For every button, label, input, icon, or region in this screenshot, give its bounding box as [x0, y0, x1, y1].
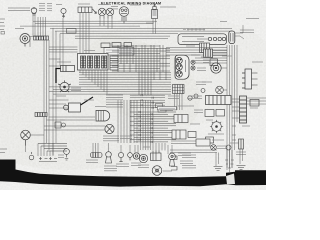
gauge: ammeter	[119, 7, 129, 24]
wire	[181, 94, 183, 111]
wire	[108, 143, 110, 152]
wire	[48, 40, 50, 150]
wire x63	[62, 18, 64, 66]
label front turn signal and parking light	[8, 8, 30, 10]
stop light switch	[55, 122, 66, 128]
label strip box mid	[157, 107, 176, 110]
terminal marks left edge	[0, 19, 5, 34]
wire	[100, 70, 102, 89]
label wire codes	[47, 4, 52, 11]
connector stub left of key	[171, 156, 177, 170]
terminal marks bottom right	[225, 160, 234, 168]
label wiper motor	[95, 106, 106, 108]
wire	[213, 55, 227, 57]
label horn	[15, 28, 24, 30]
wire	[120, 145, 122, 152]
wire distributor leads	[235, 25, 244, 39]
wire	[107, 19, 109, 29]
wire	[55, 30, 232, 32]
starter motor	[152, 166, 162, 176]
wire	[29, 37, 31, 48]
wire bundle to battery	[38, 144, 67, 152]
wire	[20, 25, 140, 27]
label	[191, 54, 200, 56]
label	[138, 165, 149, 167]
wire bus	[79, 79, 171, 81]
wire	[232, 110, 240, 112]
wire	[147, 100, 149, 150]
wire	[170, 149, 217, 151]
wire	[49, 51, 78, 53]
wire	[33, 20, 157, 22]
connector: bulkhead terminal strip	[34, 36, 49, 40]
label	[222, 55, 232, 57]
marks left edge low	[0, 149, 7, 153]
connector E-shape	[242, 69, 258, 89]
wire	[229, 150, 231, 168]
lamp small left-bottom	[64, 149, 70, 160]
wire	[171, 143, 196, 145]
wire	[247, 103, 267, 105]
small boxes mid	[156, 104, 167, 113]
label	[206, 119, 213, 121]
label	[168, 96, 179, 98]
label	[160, 110, 173, 112]
wire	[49, 49, 78, 51]
label	[196, 82, 206, 84]
wire drops center-left	[118, 100, 130, 143]
lamp: spoked instrument light	[210, 120, 223, 133]
wire	[75, 35, 170, 37]
wire bus	[79, 74, 171, 76]
wire	[166, 52, 227, 54]
ignition switch (key)	[169, 153, 176, 166]
wire	[79, 70, 81, 73]
wire	[218, 153, 220, 165]
indicator lamp	[194, 94, 198, 98]
connector pair right	[239, 139, 244, 149]
junction block (right top)	[204, 49, 213, 58]
label	[197, 38, 209, 40]
wire	[111, 19, 113, 29]
wire	[82, 70, 84, 75]
generator	[133, 153, 139, 159]
label	[120, 136, 132, 138]
wire	[232, 125, 236, 127]
label	[194, 110, 203, 112]
label	[131, 163, 141, 165]
wire	[46, 151, 48, 156]
label ignition distributor	[240, 30, 254, 32]
wire	[75, 38, 168, 40]
wire	[226, 45, 228, 170]
wire lamp ground	[25, 146, 27, 152]
lamp bottom right	[226, 145, 231, 150]
wire bus	[53, 93, 171, 95]
wire	[50, 28, 232, 30]
wire	[40, 146, 42, 156]
wire	[103, 70, 105, 92]
wire	[49, 46, 78, 48]
label	[220, 21, 227, 23]
horn RH	[211, 63, 221, 73]
wire	[176, 94, 178, 111]
wire	[215, 153, 217, 167]
wire	[92, 143, 94, 153]
ignition coil (dash)	[61, 66, 75, 72]
wire	[129, 145, 131, 153]
wire	[49, 65, 61, 67]
lamp small	[201, 89, 205, 93]
lamp: tail light LH	[21, 130, 31, 146]
ground symbol A	[214, 167, 223, 171]
wire	[43, 143, 45, 156]
wire	[82, 13, 84, 54]
wire	[231, 45, 233, 168]
label	[252, 61, 263, 63]
sender: oil pressure	[118, 152, 123, 161]
scan artifact: black band	[0, 160, 266, 187]
pilot lamp pair	[191, 60, 195, 70]
wire	[234, 45, 236, 150]
wire	[106, 70, 108, 94]
label	[242, 125, 250, 127]
wire	[40, 17, 42, 36]
switch box A	[101, 43, 110, 48]
wire	[164, 143, 166, 151]
wire	[60, 33, 178, 35]
wire	[213, 52, 227, 54]
wire	[136, 100, 138, 143]
wire	[94, 70, 96, 85]
head lamp left	[98, 8, 106, 19]
wire	[195, 60, 227, 62]
label	[116, 164, 129, 166]
small box lower right col	[206, 137, 214, 143]
label	[217, 146, 226, 148]
lamp: back-up light	[211, 145, 217, 151]
wire flasher feed (thick)	[81, 97, 94, 105]
label	[246, 18, 259, 20]
label	[182, 166, 196, 168]
legend box	[104, 48, 134, 56]
label	[182, 155, 196, 157]
harness grid verticals	[118, 45, 166, 95]
voltage regulator (lower)	[151, 151, 162, 161]
wire	[47, 119, 96, 121]
wire	[49, 151, 51, 156]
ground symbol B	[237, 166, 246, 170]
wire	[133, 100, 135, 143]
wire	[97, 70, 99, 87]
label	[86, 160, 98, 162]
wire	[195, 57, 227, 59]
label	[188, 96, 202, 98]
wire	[137, 145, 139, 153]
terminal ladder block	[240, 96, 247, 123]
wire	[42, 17, 44, 36]
connector: left harness	[35, 113, 47, 117]
label	[71, 88, 81, 90]
lamp: parking RH	[216, 86, 224, 94]
wire	[97, 143, 99, 153]
relay: horn relay	[200, 43, 210, 53]
wire	[232, 106, 240, 108]
wire bus	[79, 72, 171, 74]
wire coil to distributor (thick)	[56, 69, 61, 84]
wire	[242, 149, 244, 161]
wire	[91, 70, 93, 82]
head lamp right	[106, 8, 114, 19]
distributor (dash)	[58, 80, 71, 92]
wire bus	[79, 81, 171, 83]
label fuse box	[84, 50, 95, 52]
wire side lamp stem	[62, 16, 64, 18]
horn (lower)	[139, 154, 147, 162]
wire	[35, 23, 153, 25]
label	[84, 99, 94, 101]
wire	[232, 139, 236, 141]
wire	[130, 100, 132, 143]
wire	[171, 145, 173, 153]
wire	[195, 62, 227, 64]
wire	[232, 117, 240, 119]
label	[201, 56, 211, 58]
wire	[161, 143, 163, 151]
label	[202, 81, 212, 83]
voltage regulator	[206, 96, 232, 105]
label head lamp	[98, 4, 109, 6]
wire x60	[59, 34, 61, 66]
wire	[45, 17, 47, 36]
wire	[85, 70, 87, 77]
ignition coil	[152, 4, 158, 19]
wire	[99, 19, 101, 26]
combination switch connector	[175, 55, 189, 79]
label ignition coil	[57, 61, 71, 63]
relay block A	[174, 115, 188, 123]
fuse box	[78, 54, 109, 71]
sender: fuel gauge	[106, 152, 112, 163]
wire bus	[53, 88, 171, 90]
connector: column strip	[173, 85, 185, 94]
wire	[179, 94, 181, 111]
switch box C	[124, 43, 132, 47]
label	[186, 45, 195, 47]
wire	[103, 19, 105, 26]
small box right of connector	[210, 59, 218, 66]
lamp: front turn signal / parking light	[31, 8, 37, 15]
label	[203, 60, 209, 62]
wire bus	[79, 84, 171, 86]
wire	[142, 100, 144, 150]
wire	[229, 45, 231, 172]
wire	[231, 150, 233, 168]
relay block B	[172, 130, 196, 139]
wire	[213, 50, 227, 52]
wire	[236, 45, 238, 122]
lamp: side marker	[61, 8, 66, 16]
flasher unit	[64, 103, 81, 112]
label turn signal flasher	[39, 4, 45, 11]
wire left harness	[43, 40, 45, 143]
label horn button	[56, 4, 62, 6]
label	[163, 170, 172, 172]
wire	[232, 98, 240, 100]
wire	[150, 100, 152, 150]
wire	[37, 144, 39, 157]
label	[103, 136, 119, 141]
wire	[37, 17, 39, 36]
wire bus	[49, 86, 171, 88]
junction box left of fusebox	[67, 29, 77, 34]
harness grid horizontals	[112, 46, 170, 71]
arrow to harness	[93, 9, 97, 14]
wire	[167, 145, 169, 154]
label	[58, 155, 64, 157]
wire	[140, 100, 142, 150]
label ignition switch	[111, 7, 118, 9]
battery	[29, 152, 57, 162]
wire	[171, 140, 196, 142]
wire	[44, 129, 105, 131]
wire	[52, 143, 54, 156]
scan artifact: white nick in band	[226, 174, 235, 185]
wire	[247, 100, 267, 102]
small box far right	[250, 100, 259, 107]
label	[212, 139, 224, 141]
wire	[224, 89, 228, 91]
label	[180, 161, 193, 163]
wire	[152, 19, 154, 34]
label	[60, 119, 65, 121]
wire	[79, 13, 81, 54]
wire	[85, 13, 87, 54]
label ignition switch	[178, 153, 191, 155]
label	[143, 146, 150, 148]
wire	[166, 47, 227, 49]
label	[197, 68, 206, 70]
wire	[166, 54, 227, 56]
wire	[49, 99, 69, 101]
label No.1 connector	[78, 3, 90, 5]
wire	[232, 134, 236, 136]
wire	[158, 143, 160, 151]
fuse pair boxes	[205, 110, 225, 117]
wire	[55, 31, 57, 143]
label	[190, 123, 200, 125]
wire	[46, 40, 48, 143]
wire	[34, 13, 36, 36]
wire	[155, 19, 157, 34]
connector: engine harness	[91, 153, 103, 158]
wire	[88, 13, 90, 54]
wire	[222, 67, 228, 69]
terminal strip	[110, 56, 118, 70]
wire	[52, 28, 54, 155]
wire	[239, 149, 241, 164]
wire bus	[79, 76, 171, 78]
wire	[88, 70, 90, 80]
wire	[95, 143, 97, 153]
label	[236, 152, 246, 154]
switch box B	[112, 43, 121, 48]
label	[208, 133, 224, 135]
wire	[49, 58, 61, 60]
wire	[170, 152, 217, 154]
wire	[145, 100, 147, 150]
wire	[49, 103, 66, 105]
wire	[134, 145, 136, 153]
wire	[32, 13, 34, 36]
indicator lamp	[188, 96, 192, 100]
spark plugs row	[183, 28, 205, 31]
sender: water temp	[128, 153, 133, 161]
wire	[174, 94, 176, 111]
wire	[166, 49, 227, 51]
wire	[30, 36, 44, 38]
horn LH	[20, 34, 30, 47]
wire	[30, 134, 44, 136]
wire	[247, 97, 267, 99]
label spark plug wires	[160, 6, 176, 8]
label list lighting circuits	[106, 95, 123, 107]
label	[250, 107, 258, 109]
connector block top center	[78, 7, 92, 13]
wire	[49, 107, 69, 109]
wire bus	[49, 91, 171, 93]
wire bus mid extension	[130, 94, 165, 109]
wire	[155, 143, 157, 151]
wire	[49, 116, 95, 118]
distributor	[229, 31, 235, 44]
wire	[232, 101, 240, 103]
label	[104, 166, 117, 171]
wire	[226, 150, 228, 168]
lower bus horizontals	[130, 111, 176, 143]
lamp: dome light	[105, 124, 114, 133]
label	[146, 22, 154, 24]
wire	[44, 125, 105, 127]
wire	[152, 100, 154, 150]
relay box bottom right	[196, 139, 210, 146]
engine block / cylinder head	[178, 34, 227, 45]
wiper motor	[96, 111, 110, 122]
label	[230, 142, 239, 144]
label battery gauge	[130, 4, 141, 6]
label	[56, 95, 66, 97]
label	[178, 105, 194, 107]
